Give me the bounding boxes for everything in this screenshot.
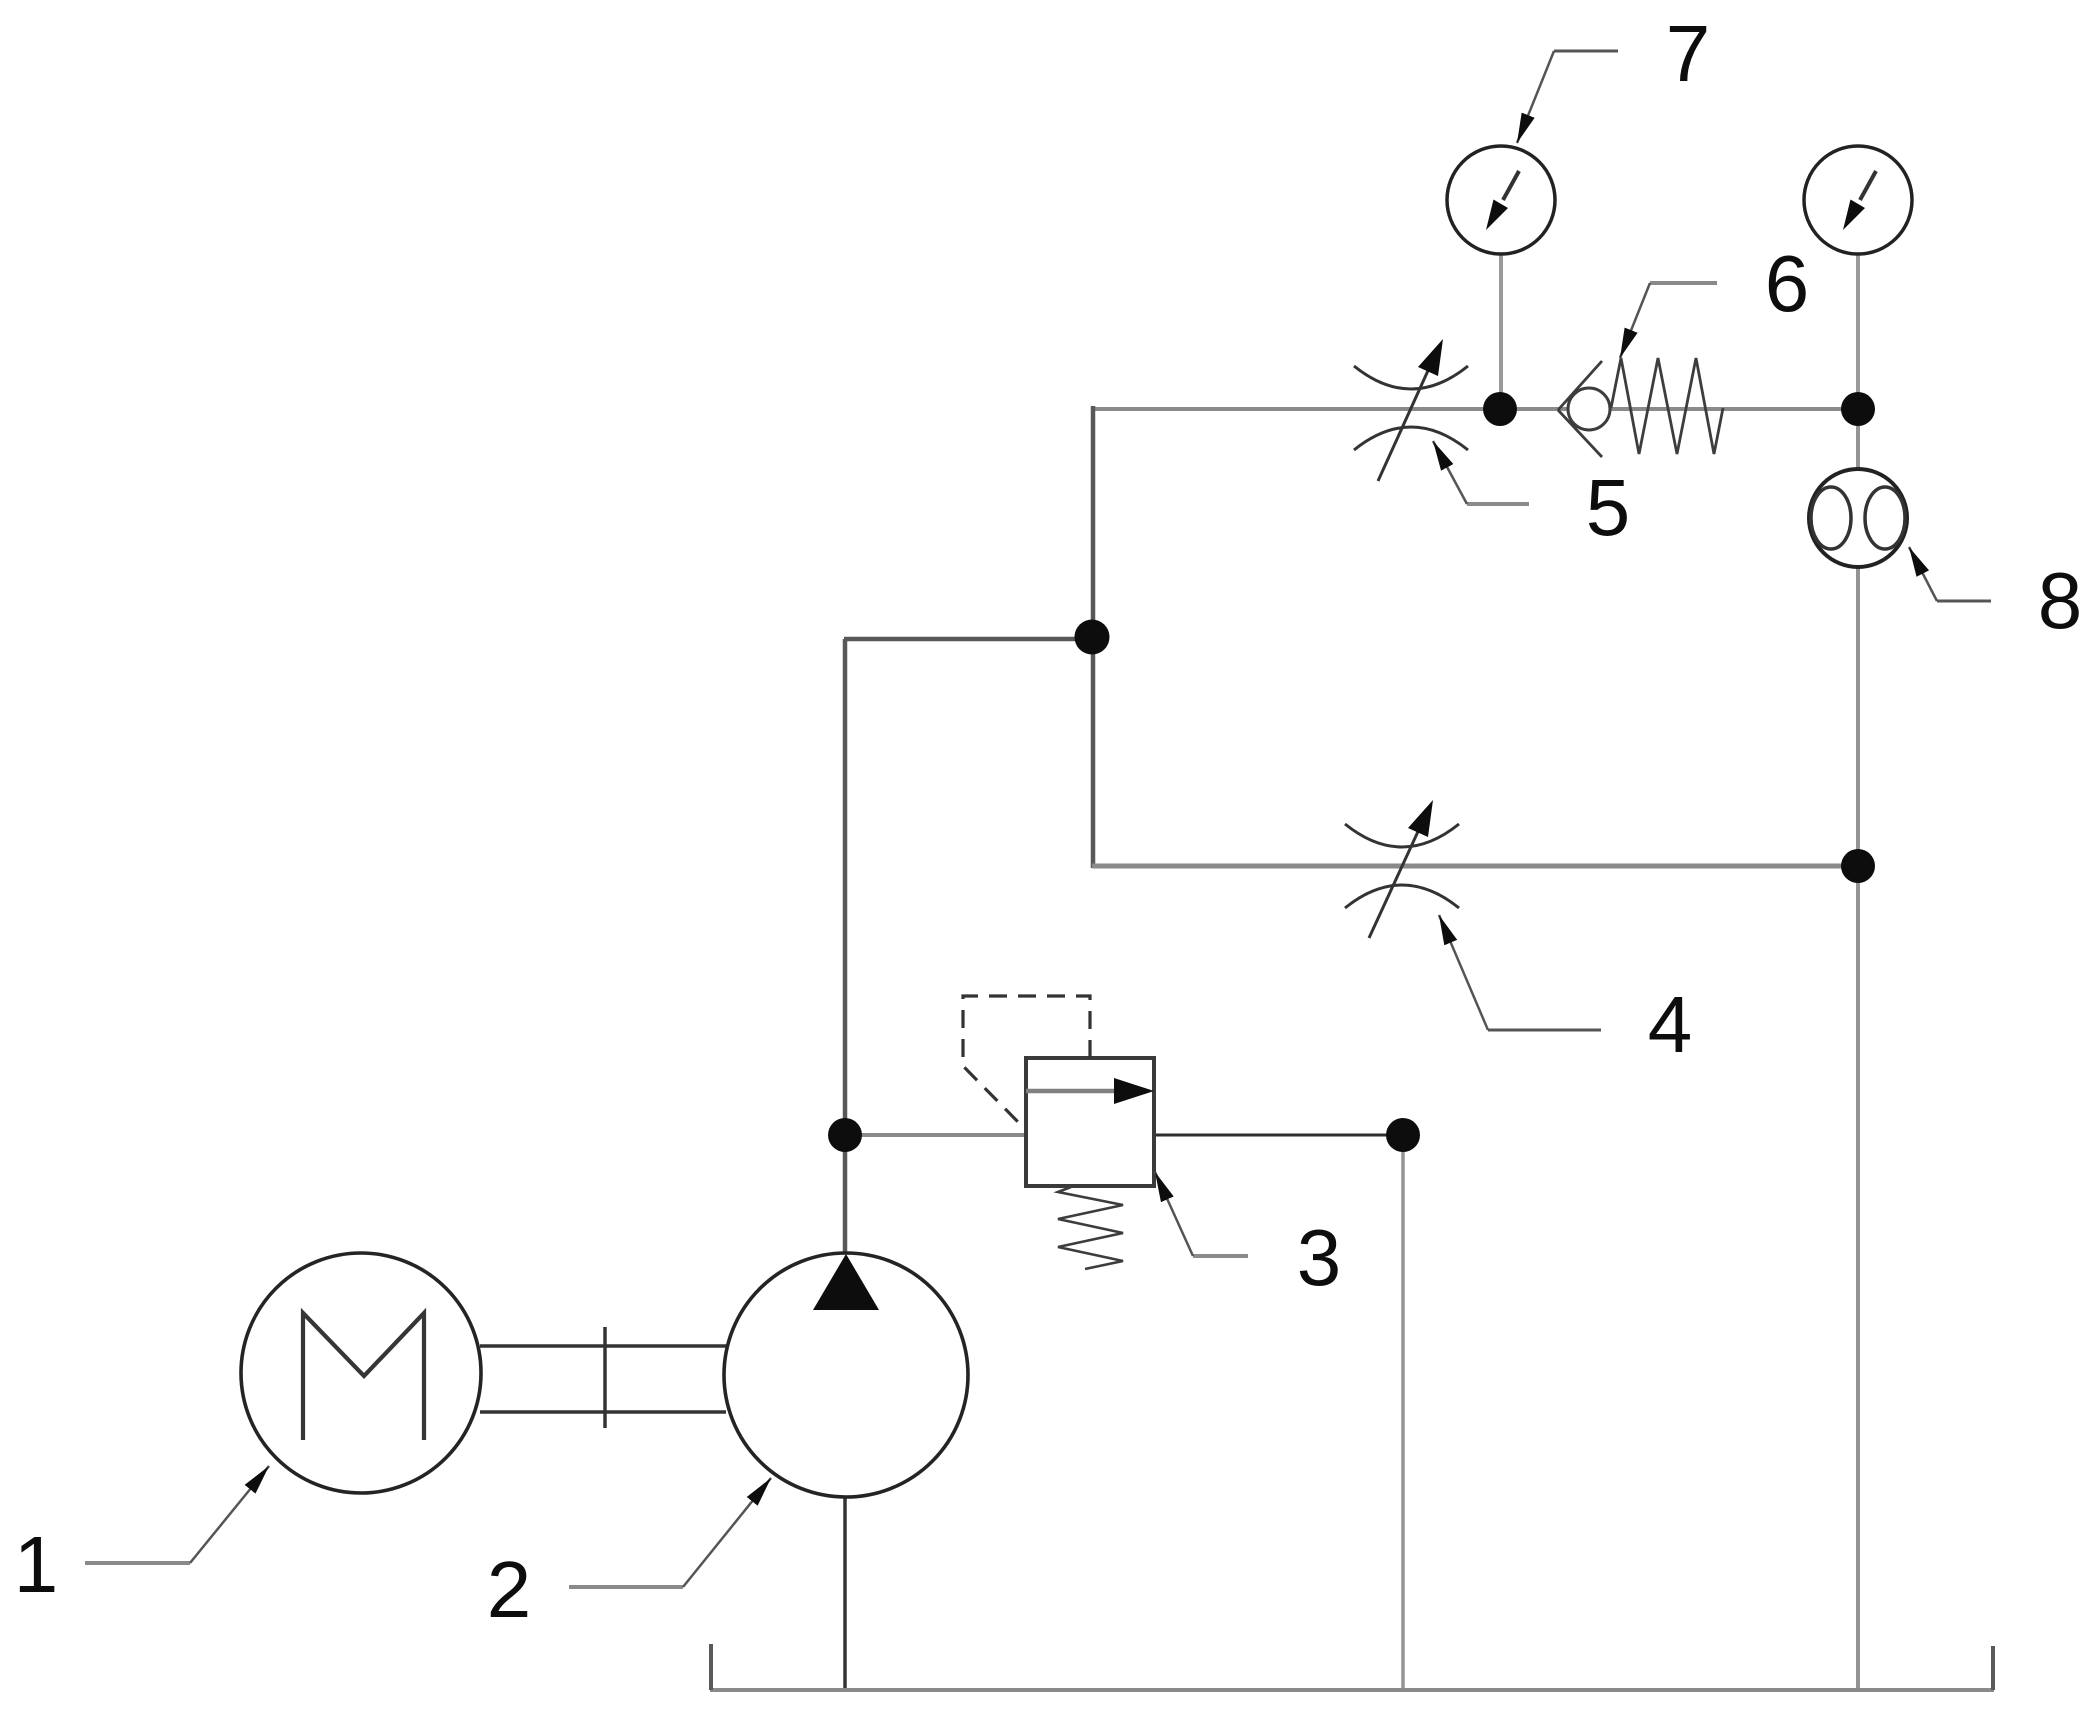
svg-text:1: 1 — [14, 1520, 59, 1609]
leader line for label 5 — [1433, 441, 1529, 504]
svg-text:3: 3 — [1297, 1213, 1342, 1302]
junction node on left vertical branch — [1075, 620, 1110, 655]
pressure gauge (right, above flow meter) — [1804, 146, 1912, 254]
shaft coupling between motor and pump — [480, 1327, 726, 1428]
leader line for label 2 — [569, 1478, 771, 1587]
junction node at relief valve inlet — [828, 1118, 862, 1152]
leader line for label 6 — [1620, 283, 1717, 358]
wire: pump outlet vertical to tank — [843, 1497, 847, 1690]
wire: top horizontal line from left corner to right junction — [1092, 407, 1858, 411]
junction node below right gauge — [1841, 392, 1875, 426]
wire: relief valve outlet segment — [1155, 1134, 1403, 1137]
wire: branch to pump, horizontal segment — [844, 637, 1093, 642]
svg-text:2: 2 — [487, 1545, 532, 1634]
label 1 — [14, 1520, 59, 1609]
label 4 — [1648, 980, 1693, 1069]
svg-text:6: 6 — [1765, 239, 1810, 328]
wire: lower horizontal line (valve 4 branch) — [1092, 864, 1858, 869]
pressure gauge 7 — [1447, 146, 1555, 254]
wire: gauge 7 drop line — [1499, 252, 1503, 409]
leader line for label 7 — [1517, 51, 1618, 143]
label 3 — [1297, 1213, 1342, 1302]
relief valve 3 pilot dashed line — [963, 996, 1090, 1128]
wire: left vertical line x=1092 — [1091, 406, 1096, 868]
junction node at lower line and right vertical — [1841, 849, 1875, 883]
label 6 — [1765, 239, 1810, 328]
svg-text:5: 5 — [1586, 463, 1631, 552]
junction node below gauge 7 — [1483, 392, 1517, 426]
label 5 — [1586, 463, 1631, 552]
check valve 6 (seat, ball, spring) — [1558, 358, 1723, 457]
label 7 — [1666, 9, 1711, 98]
throttle valve 5 (variable restrictor on top line) — [1354, 339, 1468, 481]
motor 1 (electric motor circle with M) — [241, 1253, 481, 1493]
svg-text:8: 8 — [2038, 556, 2083, 645]
junction node at relief valve outlet — [1386, 1118, 1420, 1152]
svg-text:7: 7 — [1666, 9, 1711, 98]
leader line for label 8 — [1909, 547, 1991, 601]
label 8 — [2038, 556, 2083, 645]
label 2 — [487, 1545, 532, 1634]
leader line for label 3 — [1155, 1172, 1248, 1256]
leader line for label 1 — [85, 1466, 269, 1563]
wire: right gauge drop line — [1856, 252, 1860, 409]
wire: relief valve drain vertical to tank — [1401, 1135, 1405, 1690]
tank return line with end ticks — [710, 1644, 1994, 1690]
relief valve 3 (square with arrow, spring, pilot dash line) — [1026, 1058, 1154, 1186]
wire: right vertical line through flow meter down to tank — [1856, 409, 1860, 1690]
throttle valve 4 (variable restrictor on lower line) — [1345, 800, 1459, 938]
flow meter 8 (circle with two floats) — [1809, 469, 1907, 567]
pump 2 (hydraulic pump circle with triangle) — [724, 1253, 968, 1497]
wire: relief valve inlet segment — [845, 1133, 1026, 1137]
svg-text:4: 4 — [1648, 980, 1693, 1069]
relief valve 3 spring — [1058, 1187, 1123, 1269]
leader line for label 4 — [1439, 915, 1601, 1030]
wire: branch to pump, vertical segment down to pump inlet — [843, 639, 848, 1254]
